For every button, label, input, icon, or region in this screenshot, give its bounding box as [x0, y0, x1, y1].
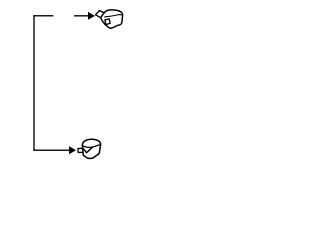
device icon D1: front hatch square: [105, 19, 110, 25]
arrowhead: top branch: [88, 12, 95, 20]
device icon D1: connector plug: [96, 11, 105, 18]
device icon D2: connector plug: [78, 148, 83, 152]
wire: bottom branch: [33, 149, 69, 151]
wire: vertical bus: [33, 16, 35, 151]
wire: top branch right segment: [74, 15, 89, 17]
device icon D1: top rim: [105, 15, 122, 17]
device icon D2: V mark: [84, 147, 93, 153]
arrowhead: bottom branch: [69, 146, 76, 154]
wire: top branch left segment: [33, 15, 53, 17]
device icon D2 (bottom): canister body: [78, 139, 101, 158]
device icon D2: top rim: [83, 145, 101, 147]
device icon D1 (top): canister body: [96, 10, 123, 28]
